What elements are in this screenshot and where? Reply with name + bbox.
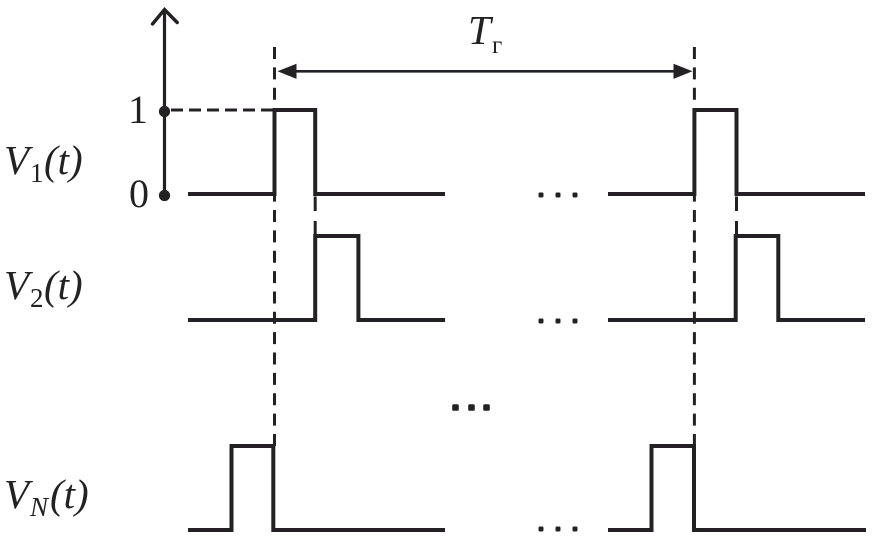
axis arrowhead chevron — [153, 10, 178, 25]
dashed guide level-1 horizontal — [171, 109, 273, 112]
axis V vertical line — [163, 11, 166, 196]
ellipsis V1 row — [539, 193, 544, 198]
dashed connector V1 fall to V2 rise period 1 — [314, 197, 317, 236]
svg-text:0: 0 — [129, 171, 149, 216]
dashed vertical marker D1 — [273, 47, 276, 446]
dashed vertical marker D2 — [693, 47, 696, 446]
svg-text:г: г — [492, 32, 502, 59]
ellipsis central rows — [452, 404, 459, 411]
ellipsis V2 row — [539, 319, 544, 324]
svg-text:(t): (t) — [44, 262, 83, 308]
svg-text:(t): (t) — [50, 471, 89, 517]
waveform V1 left segment with pulse — [188, 110, 445, 194]
dashed connector V1 fall to V2 rise period 2 — [735, 197, 738, 236]
svg-text:N: N — [29, 492, 50, 522]
waveform V1 right segment with pulse — [608, 110, 865, 194]
period arrowhead left — [278, 64, 297, 79]
waveform VN right segment with pulse — [608, 446, 866, 530]
svg-text:V: V — [4, 137, 33, 183]
node dot level 0 — [159, 190, 170, 201]
svg-text:V: V — [4, 471, 33, 517]
ellipsis VN row — [539, 527, 544, 532]
waveform V2 left segment with pulse — [188, 236, 445, 320]
period arrowhead right — [674, 64, 693, 79]
node dot level 1 — [159, 106, 170, 117]
svg-text:(t): (t) — [44, 137, 83, 183]
period arrow line — [293, 70, 677, 73]
svg-text:2: 2 — [30, 283, 44, 313]
svg-text:T: T — [468, 7, 494, 53]
waveform VN left segment with pulse — [188, 446, 445, 530]
svg-text:1: 1 — [128, 87, 148, 132]
svg-text:1: 1 — [30, 158, 44, 188]
svg-text:V: V — [4, 262, 33, 308]
waveform V2 right segment with pulse — [608, 236, 865, 320]
